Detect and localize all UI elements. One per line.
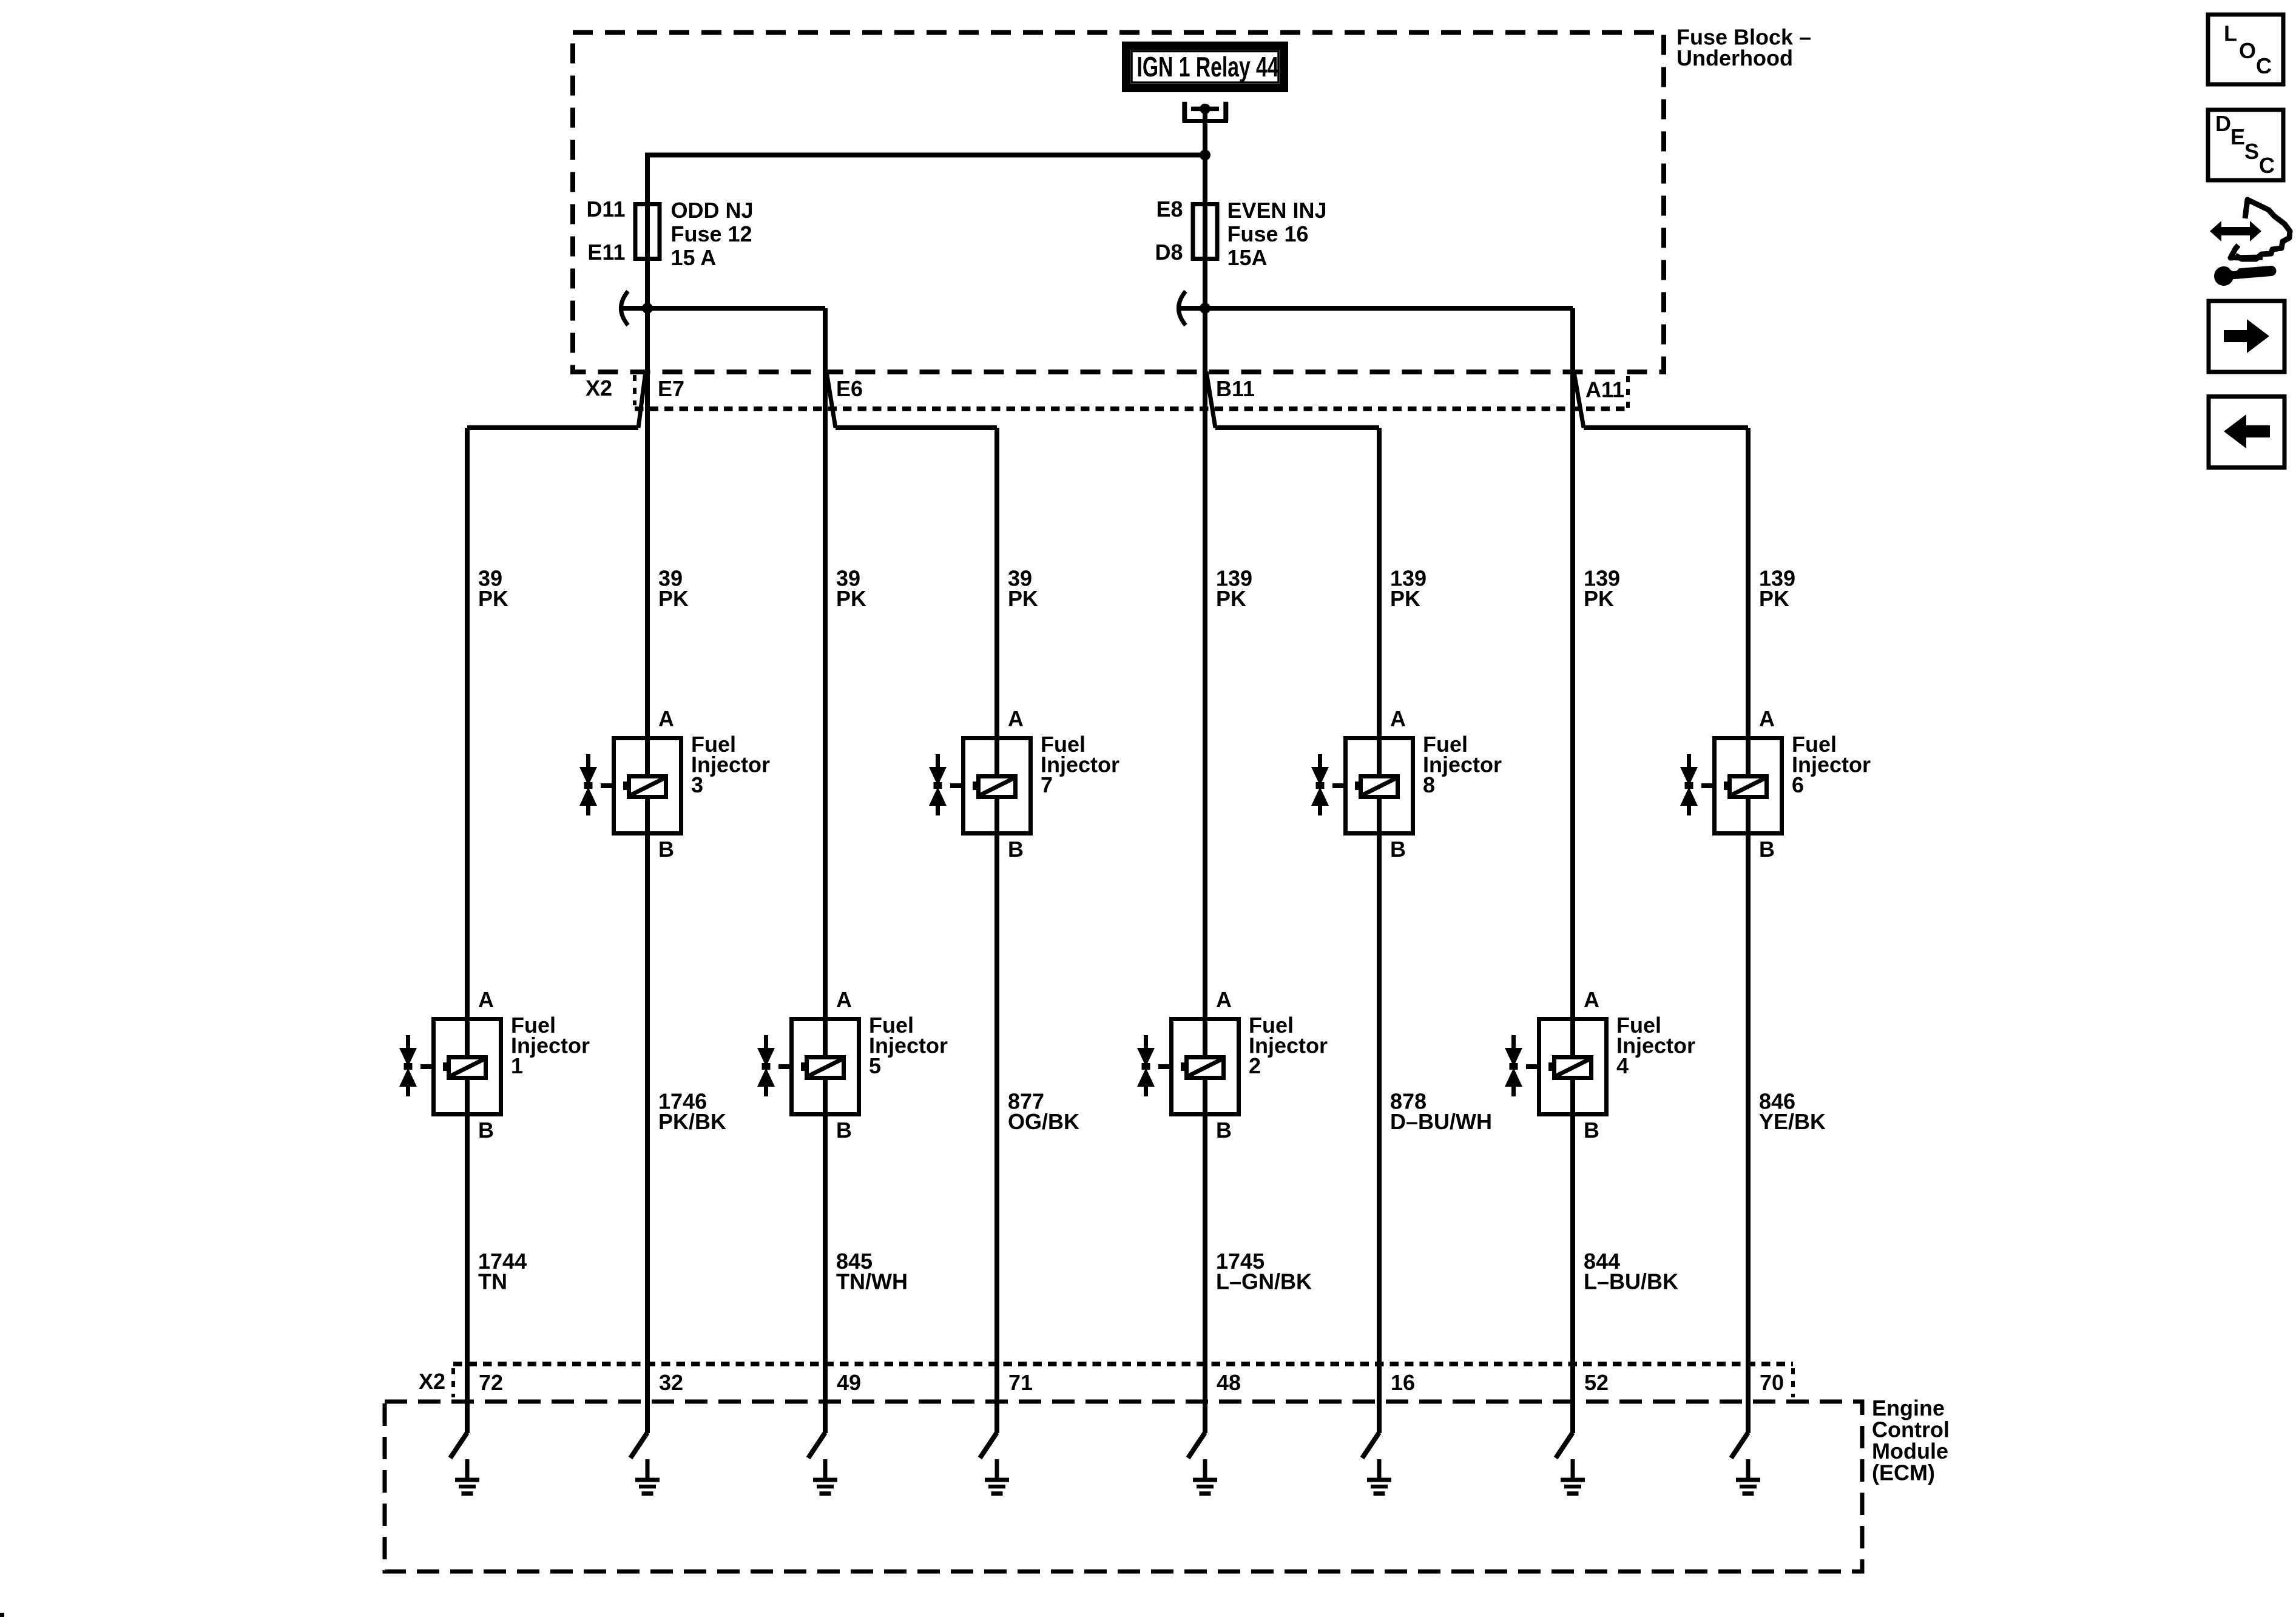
svg-text:52: 52 [1584,1370,1609,1395]
svg-text:B: B [836,1118,852,1143]
svg-text:PK: PK [1759,586,1789,611]
svg-text:PK: PK [478,586,508,611]
junction dot at relay feed [1200,150,1210,161]
splice arc at fuse 12 output [621,291,629,325]
svg-text:B: B [1216,1118,1232,1143]
wire circuit label 846 YE/BK [1759,1089,1826,1134]
wire branch B11 to injector 8 column [1215,428,1379,1433]
svg-text:B: B [478,1118,494,1143]
svg-text:X2: X2 [419,1369,445,1394]
fuel injector 4 symbol [1505,1019,1607,1115]
sidebar LOC box icon [2208,15,2283,84]
ECM driver switch for pin 71 [980,1433,997,1458]
fuel injector 4 name label [1616,1013,1695,1078]
wire circuit label 1744 TN [478,1249,527,1294]
svg-text:L–BU/BK: L–BU/BK [1584,1269,1678,1294]
page corner mark [0,1613,4,1617]
wire label 39 PK on column 1 [478,565,508,611]
svg-text:Underhood: Underhood [1676,46,1793,70]
fuel injector 4 pin A label [1584,987,1599,1012]
fuel injector 6 pin A label [1759,706,1775,731]
svg-text:Fuse 16: Fuse 16 [1227,221,1309,246]
sidebar service hand and wrench icon [2210,200,2290,286]
fuel injector 7 pin B label [1008,837,1024,862]
ground symbol under pin 49 [813,1459,837,1494]
svg-text:70: 70 [1760,1370,1784,1395]
fuel injector 3 symbol [579,738,681,834]
svg-text:(ECM): (ECM) [1872,1460,1935,1485]
svg-text:A: A [1216,987,1232,1012]
svg-text:D–BU/WH: D–BU/WH [1390,1109,1492,1134]
wire branch fuse 16 output to A11 column [1178,308,1573,1433]
wire label 39 PK on column 4 [1008,565,1038,611]
wire horizontal feed from relay junction to fuse 12 [645,153,1207,158]
sidebar DESC box icon [2208,110,2283,180]
svg-text:ODD NJ: ODD NJ [671,198,754,223]
svg-text:X2: X2 [586,376,612,400]
wire pin B11 diagonal branch [1206,371,1215,428]
splice arc at fuse 16 output [1179,291,1186,325]
relay K44 box IGN 1 Relay 44 [1126,46,1284,89]
svg-text:7: 7 [1041,772,1053,797]
fuel injector 8 pin A label [1390,706,1406,731]
ground symbol under pin 52 [1561,1459,1585,1494]
fuel injector 5 pin A label [836,987,852,1012]
ground symbol under pin 71 [985,1459,1009,1494]
wire circuit label 1746 PK/BK [658,1089,726,1134]
pin 48 label [1217,1370,1241,1395]
junction dot fuse 12 output [642,303,653,314]
fuel injector 2 pin A label [1216,987,1232,1012]
fuel injector 8 pin B label [1390,837,1406,862]
fuel injector 1 pin A label [478,987,494,1012]
fuse F16 pin D8 label [1155,240,1183,265]
svg-text:B: B [1584,1118,1599,1143]
connector X2 bottom label [419,1369,445,1394]
wire branch E7 to injector 1 column [467,428,638,1433]
wire label 139 PK on column 7 [1584,565,1620,611]
pin 72 label [479,1370,503,1395]
wire pin E6 diagonal branch [826,371,836,428]
ground symbol under pin 72 [455,1459,479,1494]
wire circuit label 1745 L–GN/BK [1216,1249,1312,1294]
pin 16 label [1391,1370,1415,1395]
wire branch fuse 12 output to E6 column [620,308,825,1433]
svg-text:3: 3 [691,772,703,797]
connector X2 bottom right tick [1791,1368,1795,1397]
svg-text:A: A [1390,706,1406,731]
svg-text:2: 2 [1249,1053,1261,1078]
svg-text:71: 71 [1008,1370,1033,1395]
svg-text:L: L [2224,21,2237,46]
fuel injector 2 name label [1249,1013,1328,1078]
fuel injector 8 name label [1423,732,1502,797]
svg-text:PK/BK: PK/BK [658,1109,726,1134]
svg-text:A11: A11 [1585,377,1624,402]
svg-text:A: A [658,706,674,731]
connector X2 bottom fine dotted line [453,1362,1793,1366]
wire circuit label 877 OG/BK [1008,1089,1079,1134]
ground symbol under pin 48 [1193,1459,1217,1494]
ECM driver switch for pin 70 [1731,1433,1748,1458]
svg-text:PK: PK [1390,586,1420,611]
fuel injector 1 pin B label [478,1118,494,1143]
svg-text:48: 48 [1217,1370,1241,1395]
fuse F16 pin E8 label [1156,197,1183,221]
ground symbol under pin 16 [1367,1459,1391,1494]
pin 32 label [659,1370,683,1395]
fuel injector 5 pin B label [836,1118,852,1143]
svg-text:PK: PK [1584,586,1614,611]
ECM driver switch for pin 48 [1188,1433,1205,1458]
svg-text:PK: PK [836,586,866,611]
svg-text:B: B [1759,837,1775,862]
svg-text:32: 32 [659,1370,683,1395]
svg-text:B: B [1008,837,1024,862]
svg-text:E: E [2230,124,2245,149]
svg-text:IGN 1 Relay 44: IGN 1 Relay 44 [1137,51,1279,83]
fuse block - underhood dashed outline box [573,33,1664,373]
svg-text:A: A [1584,987,1599,1012]
pin 71 label [1008,1370,1033,1395]
fuse F12 ODD NJ Fuse 12 15 A symbol [635,204,660,259]
fuel injector 4 pin B label [1584,1118,1599,1143]
fuel injector 2 symbol [1137,1019,1239,1115]
ECM driver switch for pin 49 [808,1433,825,1458]
pin 52 label [1584,1370,1609,1395]
pin A11 label [1585,377,1624,402]
wire vertical fuse 12 column c2 (E7) [645,155,650,1434]
wire label 39 PK on column 2 [658,565,689,611]
fuel injector 7 pin A label [1008,706,1024,731]
svg-text:49: 49 [837,1370,861,1395]
wire relay output vertical to splice [1203,109,1207,157]
svg-text:E6: E6 [836,376,863,401]
pin B11 label [1216,376,1255,401]
svg-text:6: 6 [1792,772,1804,797]
svg-text:A: A [478,987,494,1012]
fuse F12 pin E11 label [587,240,625,265]
wire label 139 PK on column 5 [1216,565,1252,611]
fuel injector 2 pin B label [1216,1118,1232,1143]
svg-text:D11: D11 [586,197,625,221]
svg-text:L–GN/BK: L–GN/BK [1216,1269,1312,1294]
svg-text:O: O [2239,38,2256,63]
wire circuit label 845 TN/WH [836,1249,908,1294]
relay output terminal bracket symbol [1183,102,1229,121]
fuse F12 pin D11 label [586,197,625,221]
fuel injector 3 pin B label [658,837,674,862]
ECM driver switch for pin 16 [1362,1433,1379,1458]
connector X2 top fine dotted line [635,407,1626,411]
connector X2 top label [586,376,612,400]
svg-text:PK: PK [1216,586,1246,611]
sidebar next page right arrow box icon [2209,301,2284,372]
fuse F16 name label [1227,198,1327,270]
svg-text:S: S [2244,139,2259,164]
svg-text:EVEN INJ: EVEN INJ [1227,198,1327,223]
fuel injector 7 symbol [929,738,1031,834]
svg-text:4: 4 [1616,1053,1629,1078]
wire circuit label 844 L–BU/BK [1584,1249,1678,1294]
fuel injector 6 symbol [1680,738,1782,834]
fuel injector 5 name label [869,1013,948,1078]
svg-text:A: A [1008,706,1024,731]
wire label 139 PK on column 8 [1759,565,1795,611]
fuel injector 6 pin B label [1759,837,1775,862]
svg-text:5: 5 [869,1053,881,1078]
svg-text:15A: 15A [1227,245,1268,270]
svg-text:PK: PK [1008,586,1038,611]
pin E7 label [658,376,684,401]
fuel injector 1 symbol [399,1019,501,1115]
fuse block - underhood label [1676,24,1811,70]
wire label 39 PK on column 3 [836,565,866,611]
svg-text:PK: PK [658,586,689,611]
svg-text:TN/WH: TN/WH [836,1269,908,1294]
engine control module ECM label [1872,1396,1950,1485]
svg-text:C: C [2259,153,2275,178]
svg-text:C: C [2256,53,2272,78]
fuel injector 6 name label [1792,732,1871,797]
engine control module ECM dashed outline box [385,1402,1862,1571]
ground symbol under pin 70 [1736,1459,1760,1494]
wire branch A11 to injector 6 column [1584,428,1748,1433]
wire pin E7 diagonal branch [638,371,646,428]
wire branch E6 to injector 7 column [836,428,997,1433]
fuse F16 EVEN INJ Fuse 16 15A symbol [1193,204,1217,259]
fuel injector 8 symbol [1311,738,1413,834]
svg-text:OG/BK: OG/BK [1008,1109,1079,1134]
svg-text:8: 8 [1423,772,1435,797]
connector X2 top left tick [633,375,636,405]
svg-text:72: 72 [479,1370,503,1395]
relay terminal junction dot [1200,104,1210,114]
svg-text:Fuse 12: Fuse 12 [671,221,752,246]
wire label 139 PK on column 6 [1390,565,1427,611]
pin 70 label [1760,1370,1784,1395]
connector X2 bottom left tick [451,1368,455,1397]
svg-text:15 A: 15 A [671,245,717,270]
svg-text:E8: E8 [1156,197,1183,221]
fuel injector 3 pin A label [658,706,674,731]
svg-text:E11: E11 [587,240,625,265]
pin E6 label [836,376,863,401]
pin 49 label [837,1370,861,1395]
svg-text:D: D [2215,111,2231,136]
connector X2 top right tick [1626,376,1630,408]
fuel injector 3 name label [691,732,770,797]
svg-text:B: B [1390,837,1406,862]
fuel injector 1 name label [511,1013,590,1078]
svg-text:E7: E7 [658,376,684,401]
svg-text:B: B [658,837,674,862]
fuse F12 name label [671,198,754,270]
ECM driver switch for pin 52 [1556,1433,1573,1458]
fuel injector 5 symbol [757,1019,859,1115]
svg-text:B11: B11 [1216,376,1255,401]
ground symbol under pin 32 [635,1459,660,1494]
sidebar previous page left arrow box icon [2209,397,2284,468]
svg-text:D8: D8 [1155,240,1183,265]
fuel injector 7 name label [1041,732,1119,797]
svg-text:YE/BK: YE/BK [1759,1109,1826,1134]
ECM driver switch for pin 32 [630,1433,647,1458]
wire pin A11 diagonal branch [1574,372,1584,428]
svg-text:TN: TN [478,1269,507,1294]
svg-text:16: 16 [1391,1370,1415,1395]
wire circuit label 878 D–BU/WH [1390,1089,1492,1134]
junction dot fuse 16 output [1200,303,1210,314]
svg-text:1: 1 [511,1053,523,1078]
ECM driver switch for pin 72 [450,1433,467,1458]
svg-text:A: A [1759,706,1775,731]
wire vertical fuse 16 column c5 (B11) [1203,157,1207,1433]
svg-text:A: A [836,987,852,1012]
